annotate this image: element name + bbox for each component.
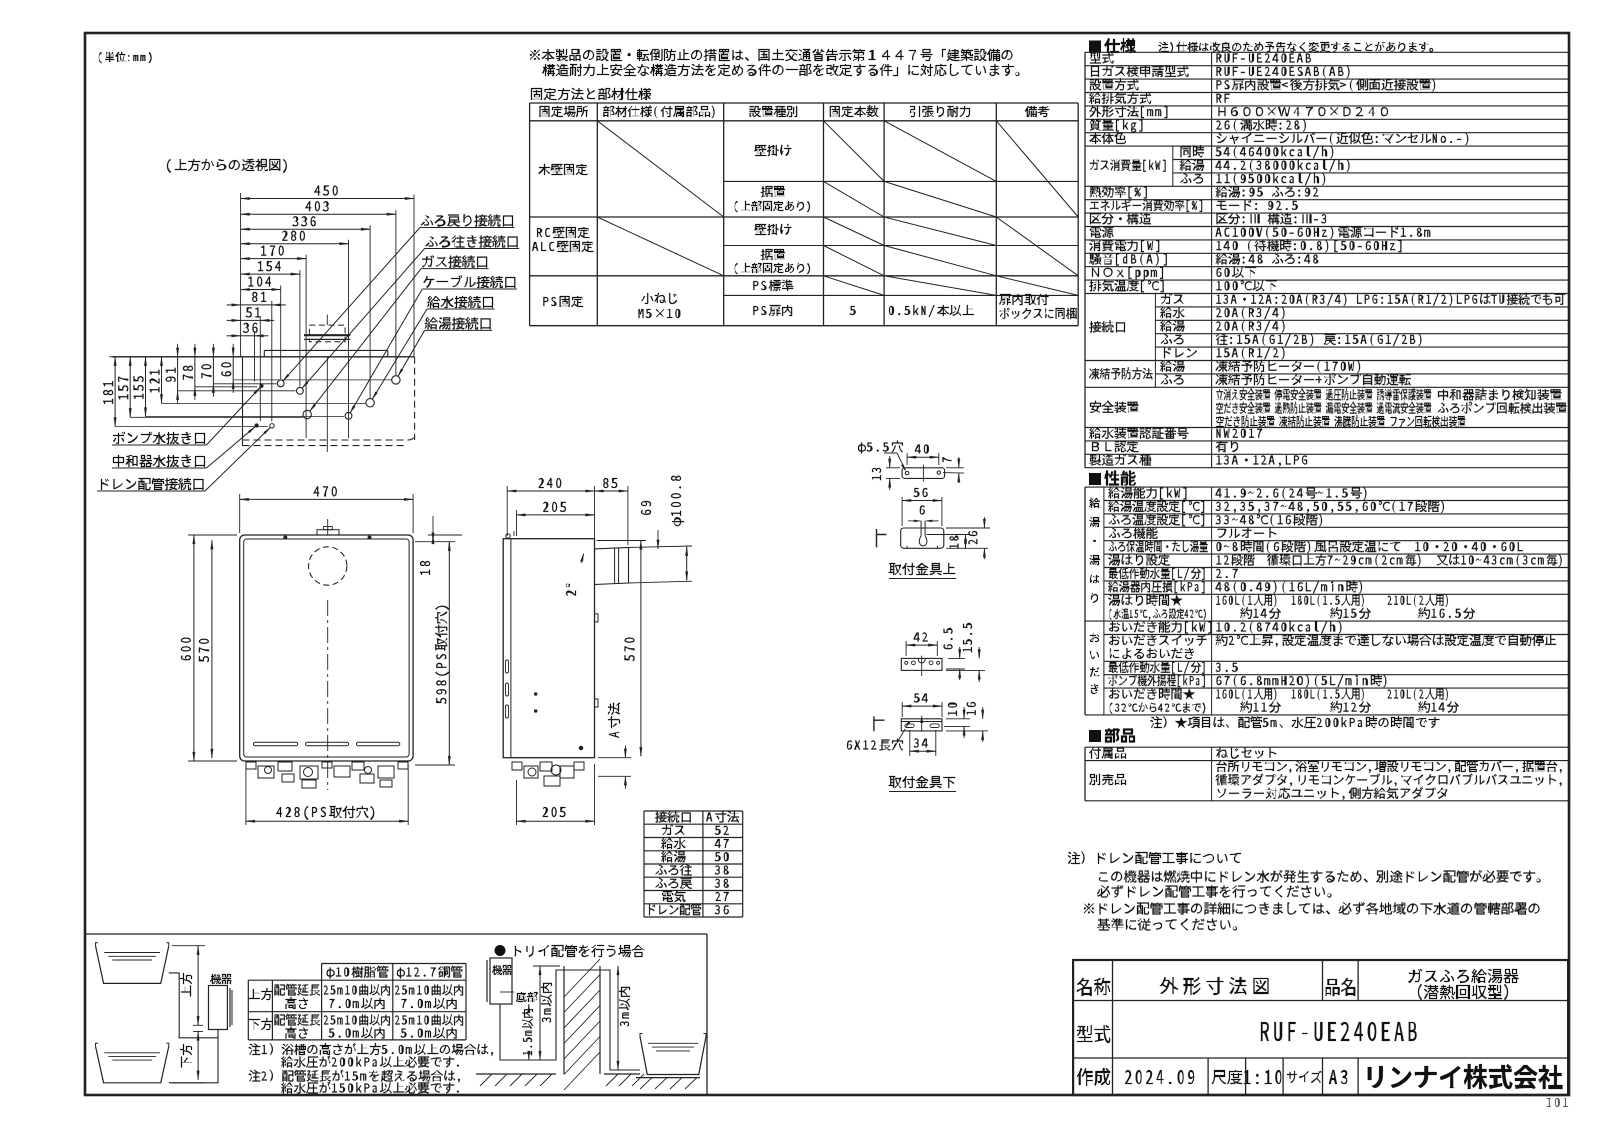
- right-side port labels with leaders: [421, 216, 433, 226]
- fixation table diagonal slashes: [597, 121, 723, 217]
- front bottom connectors: [246, 762, 256, 769]
- bottom-left drain labels with leaders: [113, 432, 125, 444]
- front view body: [240, 535, 413, 761]
- 18 dim right top: [432, 516, 434, 527]
- section mark lower: [874, 716, 885, 731]
- unit outline (perspective): [112, 356, 415, 358]
- neutralizer drain dot: [270, 424, 274, 428]
- performance heading: [1089, 473, 1101, 485]
- exhaust dashed circle: [309, 547, 347, 585]
- 42 dim: [906, 644, 937, 646]
- perspective view title: [167, 159, 171, 173]
- top bracket tab: [317, 530, 339, 535]
- A dim: [624, 745, 626, 757]
- 598 PS dim: [448, 542, 450, 765]
- A-dim table: [644, 810, 743, 812]
- 上方 dim: [172, 945, 205, 947]
- torii device box: [490, 958, 512, 1004]
- 69 dim: [657, 530, 659, 549]
- title block row1: [1077, 978, 1110, 996]
- phi5.5 hole label: [858, 443, 866, 454]
- left vertical dimension stack: [114, 357, 116, 427]
- side left slots: [506, 660, 509, 673]
- torii wall with hatching: [563, 966, 565, 1074]
- 18 dim bracket upper: [927, 534, 971, 536]
- fixation table grid: [530, 102, 1079, 104]
- bracket lower label: [888, 776, 901, 788]
- spec heading: [1089, 41, 1101, 53]
- torii ground: [476, 1073, 556, 1075]
- drain pipe dot: [260, 384, 263, 387]
- bracket lower: top plate: [901, 658, 942, 670]
- vertical centerline: [327, 600, 329, 790]
- piping notes: [248, 1043, 260, 1055]
- center arrow mark: [921, 716, 923, 732]
- bracket lower: bottom plate: [901, 719, 942, 731]
- title block: [1073, 960, 1568, 1095]
- torii pipe route: [500, 970, 640, 1070]
- bracket upper: profile: [901, 528, 944, 548]
- 16 dim: [946, 730, 988, 732]
- 34 dim: [910, 750, 936, 752]
- port cable: [345, 412, 352, 419]
- spec table content: [1090, 53, 1101, 64]
- dim extension verticals: [413, 195, 415, 357]
- torii piping title: [495, 945, 506, 956]
- title block row2 : model: [1077, 1025, 1110, 1043]
- parts heading: [1089, 730, 1101, 742]
- torii right bathtub: [640, 1037, 706, 1075]
- 6 dim: [920, 506, 925, 515]
- port furo_modori: [277, 380, 284, 387]
- 2 deg: [566, 584, 576, 596]
- PS enclosure dashed outline: [242, 357, 244, 446]
- fixation table headers: [540, 106, 550, 117]
- bracket upper: hole plate: [902, 468, 945, 479]
- pump drain dot: [255, 424, 258, 427]
- notice line1: [530, 50, 540, 60]
- spec table horizontals: [1085, 51, 1570, 53]
- drain piping notes: [1068, 852, 1080, 864]
- port furo_yuki: [297, 387, 304, 394]
- lower bathtub: [96, 1046, 169, 1083]
- parts table grid: [1085, 746, 1570, 748]
- 56 dim: [902, 500, 942, 502]
- side view body: [503, 539, 594, 758]
- 15.5 dim: [946, 669, 985, 671]
- performance table grid: [1085, 486, 1570, 488]
- side clips: [595, 614, 599, 622]
- side bottom connectors: [512, 762, 522, 770]
- phi100.8 dim: [686, 547, 688, 581]
- port water: [366, 399, 374, 407]
- performance group labels: [1089, 498, 1100, 508]
- top dimension stack: [241, 198, 414, 200]
- fixation table row labels: [538, 164, 550, 175]
- 26 dim bracket upper: [946, 527, 990, 529]
- torii dims: [539, 966, 541, 1060]
- piping lines: [169, 973, 218, 1083]
- 7 dim: [958, 457, 960, 468]
- side 205 bottom dim: [516, 780, 518, 825]
- bottom-left box: [85, 933, 707, 935]
- 6X12 slot label: [847, 741, 852, 750]
- upper bathtub: [96, 946, 169, 984]
- 6.5 dim: [948, 657, 965, 659]
- fixation table title: [531, 88, 542, 100]
- spec table verticals: [1084, 52, 1086, 467]
- side view dims: [507, 490, 594, 492]
- oval slots: [905, 724, 914, 728]
- 54 dim: [902, 705, 942, 707]
- 570 side dim: [640, 541, 642, 757]
- port gas: [303, 410, 311, 418]
- centerline: [326, 357, 328, 452]
- louvers: [253, 742, 297, 746]
- 13 dim: [889, 456, 891, 468]
- performance rows: [1108, 488, 1120, 499]
- front view dimensions: [240, 498, 413, 500]
- title block row3: [1077, 1068, 1110, 1086]
- 40 dim: [907, 456, 939, 458]
- 下方 dim: [197, 1032, 199, 1080]
- section mark upper: [877, 529, 887, 547]
- device box: [209, 986, 228, 1030]
- side duct: [595, 548, 629, 585]
- exhaust duct dashed box: [309, 325, 345, 342]
- port hotwater: [392, 376, 400, 384]
- bracket upper label: [888, 563, 901, 575]
- piping length table: [322, 963, 466, 965]
- unit note: [99, 52, 102, 63]
- performance footnote: [1150, 716, 1162, 728]
- 428 PS dim bottom: [245, 764, 247, 825]
- 10 dim: [946, 718, 970, 720]
